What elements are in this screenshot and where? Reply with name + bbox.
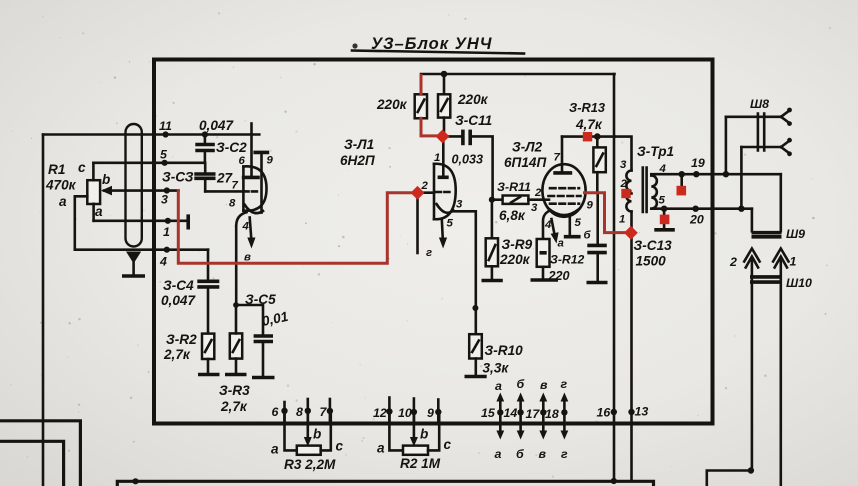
- node: terminal 9: [427, 400, 441, 422]
- svg-text:c: c: [78, 160, 86, 175]
- wire: 20 line drop: [751, 209, 754, 232]
- svg-text:9: 9: [587, 200, 594, 212]
- wire: bottom-right corner run: [707, 467, 754, 486]
- svg-text:4,7к: 4,7к: [575, 117, 603, 132]
- svg-text:R2 1М: R2 1М: [400, 456, 441, 471]
- node: terminal 6: [272, 402, 288, 421]
- resistor 3-R12 220: [537, 239, 585, 283]
- svg-text:b: b: [420, 427, 428, 442]
- resistor 220к (right): [438, 74, 489, 134]
- svg-text:1: 1: [434, 152, 440, 164]
- wire: secondary pin 4 to terminal 19 and Ш8: [651, 174, 781, 175]
- svg-text:17: 17: [526, 407, 541, 421]
- svg-text:б: б: [584, 230, 592, 242]
- svg-text:470к: 470к: [45, 178, 77, 193]
- wire: anode rail over to transformer primary: [615, 137, 632, 171]
- svg-text:З-Тр1: З-Тр1: [637, 144, 674, 159]
- 3-Л1b anode (pin 1): [434, 137, 449, 178]
- svg-text:R3 2,2М: R3 2,2М: [284, 457, 336, 472]
- shield ground stub: [132, 262, 135, 274]
- node: terminal 3: [161, 187, 170, 206]
- svg-text:3: 3: [620, 159, 627, 171]
- filament tap arrow в (terminal 17): [526, 378, 549, 461]
- resistor 3-R2 2,7к: [163, 332, 214, 373]
- svg-text:c: c: [336, 439, 344, 454]
- wire: terminal 1 line: [94, 220, 188, 223]
- capacitor 3-C5 0,01: [236, 292, 290, 376]
- svg-text:1: 1: [163, 225, 170, 239]
- svg-text:18: 18: [545, 407, 559, 421]
- node: terminal 19: [691, 156, 705, 177]
- svg-text:З-R9: З-R9: [502, 237, 533, 252]
- plug 1 (up fork): [773, 249, 796, 486]
- wire: terminal 4 line: [75, 248, 208, 251]
- svg-text:Ш9: Ш9: [786, 227, 805, 241]
- tube 3-Л1 (first triode) envelope: [243, 137, 376, 211]
- connector Ш8 mating bars: [758, 114, 764, 151]
- svg-text:5: 5: [659, 195, 666, 207]
- svg-text:2: 2: [534, 187, 542, 199]
- 3-Л1a shield (pin 9): [253, 152, 273, 212]
- svg-text:220к: 220к: [376, 97, 408, 112]
- svg-text:а: а: [558, 238, 564, 250]
- connector Ш8 upper pin line with fork: [723, 97, 792, 177]
- svg-text:З-С11: З-С11: [455, 113, 492, 128]
- plug 2 (up fork): [729, 249, 760, 471]
- filament tap arrow а (terminal 15): [481, 379, 504, 461]
- svg-text:b: b: [313, 427, 321, 442]
- svg-text:З-С4: З-С4: [163, 278, 194, 293]
- svg-text:0,047: 0,047: [161, 293, 196, 308]
- svg-text:6: 6: [272, 405, 279, 419]
- ground stub of secondary: [661, 206, 667, 229]
- node: stub to red test square: [679, 171, 685, 186]
- wire: B+ top rail: [421, 73, 615, 76]
- resistor 3-R3 2,7к: [219, 305, 250, 414]
- ground (3-R3): [225, 373, 247, 377]
- grid stub below node: [416, 195, 419, 253]
- 3-Л1a grid (pin 7): [232, 180, 261, 192]
- svg-text:0,033: 0,033: [452, 153, 484, 167]
- svg-text:а: а: [495, 447, 502, 461]
- 3-Л1a cathode (pin 8): [229, 198, 263, 227]
- svg-text:в: в: [540, 378, 548, 392]
- red test square on secondary ground stub: [660, 215, 670, 225]
- red node at grid: [411, 186, 425, 200]
- transformer 3-Тр1 primary winding: [619, 144, 674, 226]
- svg-text:8: 8: [296, 405, 303, 419]
- wire: primary bottom to red node: [630, 212, 633, 233]
- connector Ш8 lower pin line with fork: [738, 138, 792, 212]
- wire: shield drop from terminal 11 corner down left side: [42, 135, 45, 486]
- resistor 3-R11 6,8к: [489, 180, 544, 223]
- svg-text:20: 20: [689, 213, 704, 227]
- svg-text:З-С13: З-С13: [634, 238, 673, 253]
- svg-text:З-R11: З-R11: [497, 180, 531, 194]
- svg-text:10: 10: [398, 406, 412, 420]
- svg-text:13: 13: [635, 405, 649, 419]
- wire: secondary pin 5 to terminal 20 and Ш8: [651, 207, 752, 210]
- resistor 3-R9 220к: [486, 200, 533, 279]
- svg-text:4: 4: [242, 221, 250, 233]
- heater pin 5 of 3-Л2 with bar end: [564, 217, 592, 242]
- capacitor 3-C2 0,047: [195, 118, 247, 163]
- svg-text:19: 19: [691, 156, 705, 170]
- wire: B+ drop to terminal 16: [613, 74, 616, 481]
- svg-text:9: 9: [427, 406, 434, 420]
- potentiometer R1 470к body: [45, 162, 100, 204]
- svg-text:З-R3: З-R3: [219, 383, 250, 398]
- svg-text:R1: R1: [48, 162, 65, 177]
- wire: terminal 11 line to triode plate stub: [43, 133, 259, 136]
- wire: red node down to terminal 13: [630, 233, 633, 481]
- svg-text:5: 5: [447, 218, 454, 230]
- shield taper triangle: [126, 252, 141, 264]
- svg-text:3: 3: [531, 202, 538, 214]
- svg-text:г: г: [426, 247, 432, 259]
- R1 bottom lead (terminal a): [94, 204, 103, 221]
- svg-text:1: 1: [790, 255, 797, 269]
- red test square below 19 line: [677, 186, 687, 196]
- tube 3-Л1 (second triode) envelope: [433, 164, 436, 219]
- wire: grid feed to tube 3-Л1a: [205, 190, 243, 193]
- svg-text:220к: 220к: [457, 92, 489, 107]
- node: terminal 12: [373, 398, 393, 422]
- capacitor 3-C11 0,033: [446, 113, 493, 200]
- capacitor 3-C3 27: [162, 163, 234, 192]
- svg-text:в: в: [244, 252, 251, 264]
- R1 top lead (terminal c): [78, 160, 93, 180]
- node on cathode run: [472, 305, 478, 311]
- svg-text:г: г: [561, 377, 568, 391]
- 3-Л1b cathode (pin 3): [437, 199, 476, 335]
- wire: terminal 3 line (wiper to red corner): [104, 189, 179, 192]
- svg-text:6,8к: 6,8к: [499, 208, 526, 223]
- node: terminal 1: [163, 218, 171, 239]
- node at R3/C5 junction: [233, 302, 239, 308]
- svg-text:2,7к: 2,7к: [163, 347, 191, 362]
- svg-text:3,3к: 3,3к: [483, 361, 510, 376]
- svg-text:а: а: [271, 442, 279, 457]
- 3-Л2 control grid lead (pin 2): [534, 187, 549, 200]
- svg-text:в: в: [539, 447, 547, 461]
- node: terminal 4: [159, 247, 170, 269]
- tube 3-Л2 6П14П envelope: [504, 140, 586, 217]
- svg-text:8: 8: [229, 198, 236, 210]
- svg-text:12: 12: [373, 406, 387, 420]
- heater arrow pin 5 of 3-Л1b: [426, 218, 454, 260]
- svg-text:З-R10: З-R10: [485, 343, 524, 358]
- heater arrow pin 4 of 3-Л1a: [242, 218, 256, 264]
- svg-text:а: а: [495, 379, 502, 393]
- potentiometer R3 2,2М: [271, 413, 344, 472]
- svg-text:З-R12: З-R12: [550, 253, 584, 267]
- wire: cathode 3-Л1a down to R3/C5 node: [235, 226, 238, 305]
- 3-Л2 anode (pin 7): [553, 137, 572, 173]
- ground (3-R10): [465, 375, 487, 379]
- node: terminal 8: [296, 399, 311, 421]
- svg-text:З-Л1: З-Л1: [344, 137, 374, 152]
- wire: 19 line drop on right: [779, 174, 782, 231]
- svg-text:4: 4: [544, 219, 552, 231]
- wire: anode rail to transformer: [562, 135, 615, 138]
- svg-text:a: a: [95, 204, 103, 219]
- shielded cable capsule: [126, 124, 142, 247]
- svg-text:б: б: [517, 377, 525, 391]
- svg-text:З-СЗ: З-СЗ: [162, 170, 194, 185]
- terminator bar at terminal 1: [186, 214, 190, 229]
- svg-text:3: 3: [161, 193, 168, 207]
- second external corner wire: [0, 441, 64, 486]
- svg-text:З-С2: З-С2: [216, 140, 247, 155]
- svg-text:6: 6: [239, 155, 246, 167]
- capacitor 3-C4 0,047: [161, 250, 219, 334]
- node: terminal 16: [597, 406, 618, 420]
- node: terminal 10: [398, 399, 417, 422]
- resistor 220к (left): [376, 94, 427, 118]
- red test square on anode rail: [583, 132, 592, 141]
- heater arrow pin 4 of 3-Л2: [544, 219, 564, 250]
- ground (3-R2): [198, 373, 220, 377]
- svg-text:2: 2: [620, 178, 628, 190]
- title УЗ-Блок УНЧ: [352, 35, 524, 54]
- filament tap arrow г (terminal 18): [545, 377, 568, 461]
- svg-text:З-R2: З-R2: [166, 332, 197, 347]
- svg-text:7: 7: [554, 152, 561, 164]
- connector Ш9 bars: [752, 227, 806, 241]
- svg-text:c: c: [444, 437, 452, 452]
- svg-text:З-R13: З-R13: [569, 100, 605, 115]
- svg-text:1500: 1500: [636, 254, 667, 269]
- svg-text:9: 9: [267, 155, 274, 167]
- node: terminal 7: [320, 399, 334, 421]
- red wire: 3-Л2 screen to transformer bottom node: [585, 193, 626, 233]
- svg-text:6Н2П: 6Н2П: [340, 153, 376, 168]
- resistor 3-R13 4,7к: [569, 100, 606, 193]
- svg-text:Ш8: Ш8: [750, 97, 769, 111]
- svg-text:7: 7: [232, 180, 239, 192]
- svg-text:4: 4: [159, 255, 167, 269]
- red test square at transformer pin 2: [621, 189, 630, 198]
- R1 left lead (terminal а) to terminal 4 line: [59, 194, 87, 250]
- svg-text:5: 5: [160, 148, 168, 162]
- next block top edge (bottom box): [117, 478, 653, 486]
- ground (3-C13): [587, 281, 608, 285]
- svg-text:15: 15: [481, 406, 496, 420]
- filament tap arrow б (terminal 14): [504, 377, 525, 461]
- svg-text:6П14П: 6П14П: [504, 155, 547, 170]
- node: terminal 13: [628, 405, 648, 419]
- red node at primary pin 1: [624, 226, 638, 240]
- svg-text:3: 3: [456, 199, 463, 211]
- 3-Л2 cathode lead (pin 3): [531, 202, 550, 239]
- capacitor 3-C13 1500: [587, 194, 672, 281]
- ground (3-C5): [252, 376, 275, 380]
- svg-text:5: 5: [575, 217, 582, 229]
- node: R13 top junction: [594, 133, 601, 140]
- node: terminal 20: [689, 206, 704, 227]
- node on B+ rail: [441, 71, 448, 78]
- transformer core: [643, 168, 647, 213]
- svg-text:2: 2: [729, 255, 737, 269]
- 3-Л2 cathode arc: [549, 209, 580, 216]
- red wire: terminal 3 to 3-Л1b grid: [178, 191, 413, 263]
- R1 wiper arrow (terminal b): [101, 172, 112, 195]
- svg-text:16: 16: [597, 406, 611, 420]
- svg-text:Ш10: Ш10: [786, 276, 812, 290]
- svg-text:11: 11: [159, 119, 172, 133]
- svg-text:2,7к: 2,7к: [220, 399, 248, 414]
- svg-text:б: б: [516, 447, 524, 461]
- ground (secondary): [654, 228, 675, 232]
- transformer 3-Тр1 secondary winding: [651, 163, 666, 209]
- svg-text:З-С5: З-С5: [245, 292, 276, 307]
- svg-text:0,047: 0,047: [199, 118, 234, 133]
- svg-text:а: а: [59, 194, 67, 209]
- svg-text:1: 1: [619, 214, 625, 226]
- red node at C11 junction: [436, 129, 450, 143]
- node: terminal 11: [159, 119, 172, 138]
- 3-Л2 grids (dashes): [550, 187, 579, 190]
- svg-text:г: г: [561, 447, 568, 461]
- node: terminal 5: [160, 148, 168, 166]
- red wire: 220к bottom to C11 node: [421, 118, 438, 136]
- svg-text:З-Л2: З-Л2: [512, 140, 543, 155]
- block border (big box): [154, 60, 713, 424]
- 3-Л1a anode (pin 6): [239, 124, 260, 178]
- svg-text:а: а: [377, 441, 385, 456]
- wire: terminal 5 line: [93, 162, 205, 165]
- ground (shield): [122, 274, 145, 278]
- svg-text:14: 14: [504, 406, 518, 420]
- 3-Л1b grid (pin 2): [421, 180, 450, 193]
- ground (3-R12): [531, 278, 559, 282]
- ground (3-R9): [482, 279, 503, 283]
- svg-text:220к: 220к: [499, 252, 531, 267]
- svg-text:b: b: [102, 172, 110, 187]
- external corner wires bottom-left: [0, 421, 80, 486]
- resistor 3-R10 3,3к: [469, 334, 523, 375]
- red wire: 220к top lead: [420, 75, 423, 94]
- connector Ш10 bars: [750, 276, 812, 290]
- svg-text:7: 7: [320, 405, 328, 419]
- potentiometer R2 1М: [377, 413, 452, 471]
- transformer pin 2 stub: [626, 192, 632, 195]
